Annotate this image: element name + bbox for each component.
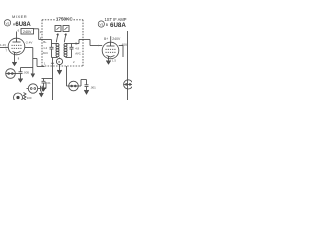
svg-text:B: B	[106, 23, 109, 27]
svg-text:4.8: 4.8	[75, 47, 79, 51]
svg-text:B: B	[58, 60, 60, 64]
svg-text:B+: B+	[104, 37, 108, 41]
svg-text:40V: 40V	[122, 43, 129, 47]
svg-text:AVC: AVC	[43, 51, 49, 55]
svg-text:240V: 240V	[112, 37, 121, 41]
svg-text:B+: B+	[75, 42, 79, 46]
svg-text:.001: .001	[90, 86, 96, 90]
svg-text:1750KC: 1750KC	[56, 17, 74, 22]
svg-text:.01: .01	[47, 81, 52, 85]
svg-text:6U8A: 6U8A	[110, 22, 126, 29]
svg-text:MIXER: MIXER	[12, 14, 27, 19]
svg-text:2: 2	[40, 30, 42, 34]
svg-text:8: 8	[18, 57, 20, 61]
svg-text:1.4V: 1.4V	[0, 43, 6, 47]
svg-text:-2.4V: -2.4V	[25, 41, 32, 45]
svg-text:100: 100	[27, 96, 32, 100]
svg-text:V3: V3	[99, 22, 103, 26]
svg-text:1.5: 1.5	[112, 59, 116, 63]
svg-text:1.4: 1.4	[43, 46, 47, 50]
svg-text:240V: 240V	[23, 30, 32, 34]
svg-text:AVC: AVC	[75, 52, 81, 56]
svg-text:6: 6	[18, 29, 20, 33]
svg-text:6U8A: 6U8A	[15, 22, 31, 28]
svg-text:B+: B+	[43, 40, 47, 44]
svg-text:7: 7	[6, 49, 8, 53]
svg-text:1: 1	[44, 62, 46, 66]
svg-text:.005: .005	[23, 70, 29, 74]
svg-text:2: 2	[73, 60, 75, 64]
svg-text:V2: V2	[6, 21, 10, 25]
